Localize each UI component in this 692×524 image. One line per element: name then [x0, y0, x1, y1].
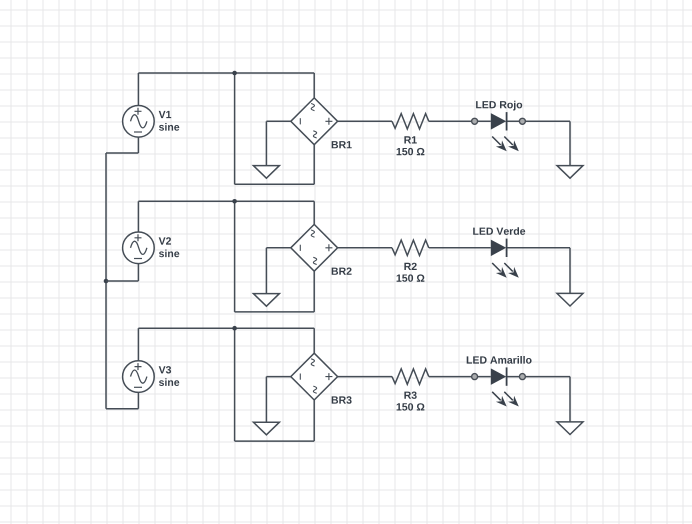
wire (top net to BR3 ~ top)	[313, 328, 315, 353]
wire (LED cathode to ground)	[507, 120, 570, 122]
wire (bottom return horizontal)	[235, 311, 315, 313]
wire (V1 + terminal to top net)	[137, 73, 139, 106]
label LED Verde	[473, 227, 525, 235]
wire (to right ground)	[569, 377, 571, 422]
terminal dot (LED anode)	[472, 118, 478, 124]
wire (BR1 + output to R1)	[338, 120, 392, 122]
wire (BR2 + output to R2)	[338, 247, 392, 249]
ground (left, BR2 minus)	[253, 294, 279, 307]
wire (V3 - terminal to rail)	[106, 408, 138, 410]
wire (to left ground)	[265, 248, 267, 294]
label V1 sine	[159, 111, 172, 118]
wire (top net horizontal)	[138, 72, 314, 74]
resistor R1	[392, 114, 429, 129]
junction (rail / V2 return)	[104, 279, 109, 284]
wire (junction drop)	[234, 328, 236, 441]
wire (bottom return horizontal)	[235, 440, 315, 442]
label R1 150 ohm	[404, 136, 416, 143]
wire (junction drop)	[234, 201, 236, 312]
node junction on top net	[232, 71, 237, 76]
wire (V2 - terminal down)	[137, 264, 139, 281]
wire (BR1 ~ bottom to return)	[313, 145, 315, 185]
wire (V3 + terminal to top net)	[137, 328, 139, 361]
label BR3	[332, 396, 352, 403]
wire (R3 to LED anode)	[429, 376, 491, 378]
wire (R2 to LED anode)	[429, 247, 491, 249]
wire (to left ground)	[265, 377, 267, 423]
node junction on top net	[232, 199, 237, 204]
label V3 sine	[159, 366, 171, 373]
wire (BR3 - output)	[266, 376, 290, 378]
wire (V3 - terminal down)	[137, 392, 139, 408]
wire (BR2 - output)	[266, 247, 290, 249]
wire (BR3 ~ bottom to return)	[313, 400, 315, 441]
voltage source V2 (sine)	[123, 232, 155, 264]
wire (top net horizontal)	[138, 200, 314, 202]
wire (LED cathode to ground)	[507, 376, 570, 378]
ground (right, LED return)	[557, 166, 583, 179]
terminal dot (LED cathode)	[519, 118, 525, 124]
label LED Rojo	[476, 101, 522, 111]
ground (left, BR1 minus)	[253, 166, 279, 179]
wire (V1 - terminal down)	[137, 137, 139, 153]
node junction on top net	[232, 326, 237, 331]
bridge rectifier BR1	[291, 98, 338, 145]
wire (common return rail)	[105, 153, 107, 409]
label BR1	[332, 141, 352, 148]
label R2 150 ohm	[404, 263, 416, 270]
wire (top net to BR2 ~ top)	[313, 201, 315, 224]
wire (LED cathode to ground)	[507, 247, 570, 249]
resistor R2	[392, 240, 429, 255]
label R3 150 ohm	[404, 392, 416, 399]
ground (right, LED return)	[557, 293, 583, 306]
resistor R3	[392, 369, 429, 384]
wire (junction drop)	[234, 73, 236, 184]
wire (R1 to LED anode)	[429, 120, 491, 122]
LED (LED Verde)	[491, 239, 519, 278]
bridge rectifier BR3	[291, 353, 338, 400]
label V2 sine	[159, 237, 171, 244]
voltage source V3 (sine)	[123, 361, 155, 393]
wire (to right ground)	[569, 248, 571, 294]
ground (left, BR3 minus)	[253, 422, 279, 435]
label BR2	[332, 268, 352, 275]
wire (V1 - terminal to rail)	[106, 152, 138, 154]
wire (BR2 ~ bottom to return)	[313, 271, 315, 312]
wire (bottom return horizontal)	[235, 183, 315, 185]
LED (LED Amarillo)	[491, 367, 519, 406]
wire (V2 + terminal to top net)	[137, 201, 139, 232]
bridge rectifier BR2	[291, 224, 338, 271]
wire (to left ground)	[265, 121, 267, 165]
wire (top net horizontal)	[138, 327, 314, 329]
wire (BR1 - output)	[266, 120, 290, 122]
terminal dot (LED cathode)	[519, 374, 525, 380]
LED (LED Rojo)	[491, 112, 519, 151]
ground (right, LED return)	[557, 422, 583, 435]
voltage source V1 (sine)	[123, 106, 155, 138]
wire (to right ground)	[569, 121, 571, 165]
wire (top net to BR1 ~ top)	[313, 73, 315, 98]
wire (BR3 + output to R3)	[338, 376, 392, 378]
label LED Amarillo	[467, 356, 532, 364]
wire (V2 - terminal to rail)	[106, 280, 138, 282]
terminal dot (LED anode)	[472, 374, 478, 380]
